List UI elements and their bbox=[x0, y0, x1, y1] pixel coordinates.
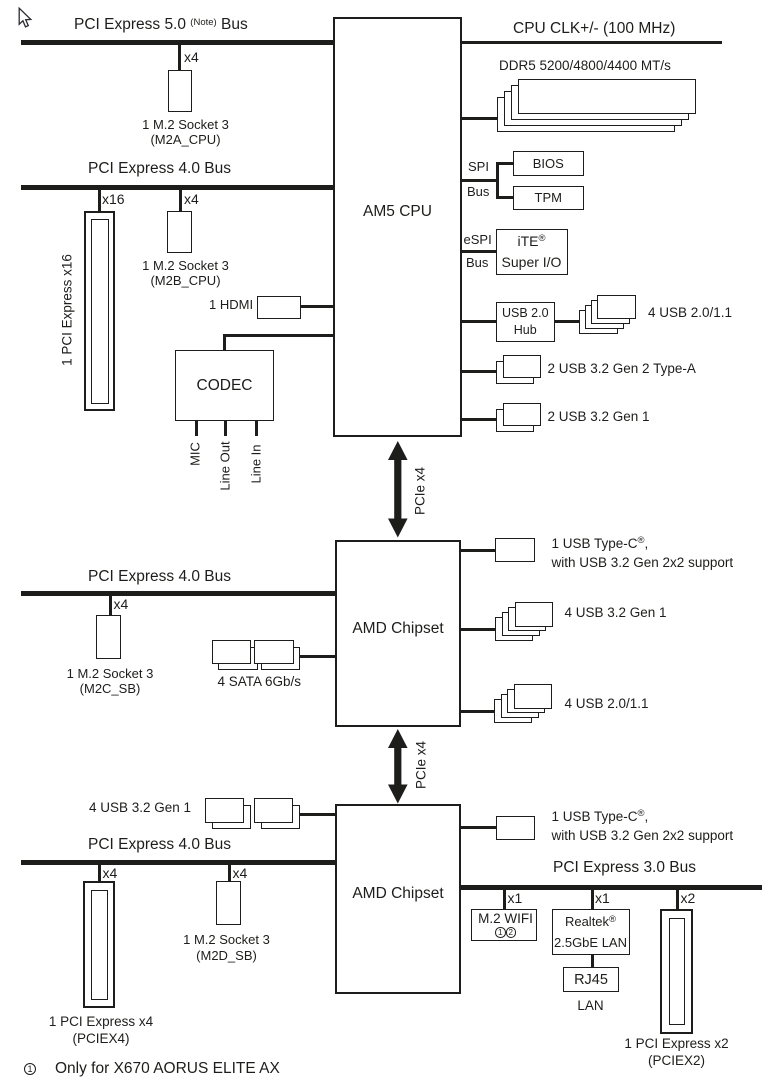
box Type-C 1 bbox=[495, 538, 535, 563]
label Line In bbox=[248, 444, 263, 483]
label 4 USB 3.2 Gen 1 (chipset) bbox=[565, 606, 667, 620]
bus PCIe 5.0 bbox=[21, 40, 334, 45]
box Type-C 2 bbox=[496, 816, 536, 841]
label PCIEX2 bbox=[617, 1036, 737, 1069]
bus PCIe 4.0 chipset 2 bbox=[21, 860, 335, 865]
wire BIOS branch bbox=[496, 162, 513, 165]
label SPI bbox=[468, 160, 489, 173]
box AMD Chipset 1 bbox=[335, 540, 461, 727]
stack 2 USB 3.2 Gen 2 Type-A bbox=[0, 0, 773, 1]
label Type-C 2 bbox=[552, 808, 734, 844]
wire CPU CLK bbox=[462, 41, 722, 44]
label Type-C 1 bbox=[552, 535, 734, 571]
box USB 2.0 Hub bbox=[496, 302, 556, 342]
wire SPI trunk bbox=[462, 179, 496, 182]
wire x16 drop bbox=[98, 190, 101, 211]
box BIOS bbox=[513, 151, 585, 176]
slot PCIEX2 bbox=[0, 0, 773, 1]
bus PCIe 3.0 bbox=[461, 885, 762, 890]
slot PCIEX4 bbox=[0, 0, 773, 1]
label PCI Express 4.0 Bus (CPU) bbox=[88, 161, 231, 177]
label MIC bbox=[188, 442, 203, 466]
stack 2 USB 3.2 Gen 1 bbox=[0, 0, 773, 1]
box M.2 WIFI bbox=[471, 909, 537, 941]
box M2A_CPU bbox=[168, 70, 192, 112]
label x16 bbox=[102, 192, 125, 206]
label 4 USB 2.0/1.1 (CPU) bbox=[648, 306, 732, 320]
label LAN bbox=[531, 999, 651, 1013]
box Realtek LAN bbox=[552, 909, 630, 955]
stack 4 USB 2.0/1.1 (chipset) bbox=[0, 0, 773, 1]
wire hub to stack bbox=[555, 320, 579, 323]
wire RJ45 bbox=[591, 955, 594, 968]
label 2 USB 3.2 Gen 1 bbox=[548, 410, 650, 424]
note text bbox=[55, 1061, 280, 1077]
label PCIEX4 bbox=[41, 1014, 161, 1047]
label eSPI Bus bbox=[466, 256, 488, 269]
label x2 bbox=[681, 891, 696, 905]
arrow PCIe x4 upper bbox=[388, 441, 408, 538]
label AMD Chipset 1 bbox=[335, 621, 461, 637]
wire PCIEX2 drop bbox=[676, 890, 679, 909]
label PCI Express 4.0 Bus (chipset 1) bbox=[88, 569, 231, 585]
label x4 PCIEX4 bbox=[103, 866, 118, 880]
label M2D_SB bbox=[167, 932, 287, 963]
label M2B_CPU bbox=[126, 258, 246, 288]
box HDMI bbox=[257, 296, 301, 319]
wire PCIEX4 drop bbox=[98, 865, 101, 881]
stack 4 USB 3.2 Gen 1 (chipset) bbox=[0, 0, 773, 1]
box AM5 CPU bbox=[333, 17, 462, 437]
label x1 WIFI bbox=[508, 891, 523, 905]
label x4 M2D bbox=[233, 866, 248, 880]
wire 4 USB 3.2 Gen 1 bbox=[461, 628, 496, 631]
label DDR5 bbox=[499, 59, 671, 73]
label AMD Chipset 2 bbox=[335, 886, 461, 902]
wire HDMI to CPU bbox=[300, 305, 334, 308]
label x1 LAN bbox=[595, 891, 610, 905]
wire USB2 hub bbox=[462, 320, 496, 323]
wire x4 drop M2B bbox=[179, 190, 182, 211]
label 2 USB 3.2 Gen 2 Type-A bbox=[548, 362, 696, 376]
wire M2D drop bbox=[228, 865, 231, 881]
slot PCIEX16 bbox=[0, 0, 773, 1]
box iTE Super I/O bbox=[496, 229, 568, 275]
wire 2 USB 3.2 Gen 2 bbox=[462, 370, 496, 373]
label 4 USB 2.0/1.1 (chipset) bbox=[565, 697, 649, 711]
label M2A_CPU bbox=[126, 117, 246, 147]
stack SATA boxes bbox=[0, 0, 773, 1]
wire SATA bbox=[299, 655, 335, 658]
label PCI Express 5.0 Bus bbox=[74, 17, 248, 33]
label PCIe x4 upper bbox=[413, 467, 428, 515]
label 4 USB 3.2 Gen 1 (left) bbox=[89, 801, 191, 815]
wire LAN drop bbox=[591, 890, 594, 909]
label 1 HDMI bbox=[209, 298, 253, 311]
wire CODEC horizontal bbox=[223, 334, 335, 337]
wire Line In stub bbox=[255, 421, 258, 436]
wire Type-C 2 bbox=[461, 826, 496, 829]
wire 2 USB 3.2 Gen 1 bbox=[462, 418, 496, 421]
label CPU CLK bbox=[513, 21, 675, 37]
bus PCIe 4.0 CPU bbox=[21, 185, 334, 190]
box TPM bbox=[513, 186, 585, 210]
wire M2A drop bbox=[178, 45, 181, 70]
wire TPM branch bbox=[496, 196, 513, 199]
stack 4 USB 2.0/1.1 (CPU) bbox=[0, 0, 773, 1]
label 1 PCI Express x16 bbox=[60, 254, 75, 366]
box M2C_SB bbox=[96, 615, 121, 659]
label 4 SATA 6Gb/s bbox=[218, 675, 302, 689]
cursor bbox=[17, 7, 33, 29]
label x4 M2A bbox=[184, 50, 199, 64]
label M2C_SB bbox=[50, 666, 170, 696]
label PCI Express 4.0 Bus (chipset 2) bbox=[88, 837, 231, 853]
box CODEC bbox=[175, 350, 274, 421]
label Line Out bbox=[218, 441, 233, 490]
label AM5 CPU bbox=[333, 204, 462, 220]
wire Type-C 1 bbox=[461, 549, 495, 552]
arrow PCIe x4 lower bbox=[388, 729, 408, 804]
label x4 M2C bbox=[114, 597, 129, 611]
wire eSPI bbox=[462, 250, 496, 253]
box M2D_SB bbox=[216, 881, 241, 925]
label SPI Bus bbox=[467, 185, 489, 198]
label eSPI bbox=[464, 233, 492, 246]
bus PCIe 4.0 chipset 1 bbox=[21, 591, 335, 596]
note marker circled 1 bbox=[24, 1060, 36, 1076]
wire CODEC vertical bbox=[223, 334, 226, 351]
box AMD Chipset 2 bbox=[335, 804, 461, 994]
label x4 M2B bbox=[184, 192, 199, 206]
wire SPI bracket bbox=[496, 162, 499, 200]
box RJ45 bbox=[563, 967, 619, 992]
wire 4 USB 3.2 Gen 1 left bbox=[300, 813, 335, 816]
wire 4 USB 2.0 chipset bbox=[461, 710, 496, 713]
box M2B_CPU bbox=[167, 211, 192, 253]
stack DDR5 DIMMs bbox=[0, 0, 773, 1]
wire MIC stub bbox=[195, 421, 198, 436]
wire M2C drop bbox=[109, 596, 112, 616]
label PCI Express 3.0 Bus bbox=[553, 860, 696, 876]
wire DDR5 bbox=[462, 117, 498, 120]
stack 4 USB 3.2 Gen 1 boxes (left) bbox=[0, 0, 773, 1]
wire Line Out stub bbox=[224, 421, 227, 436]
wire WIFI drop bbox=[503, 890, 506, 909]
label PCIe x4 lower bbox=[413, 740, 428, 788]
